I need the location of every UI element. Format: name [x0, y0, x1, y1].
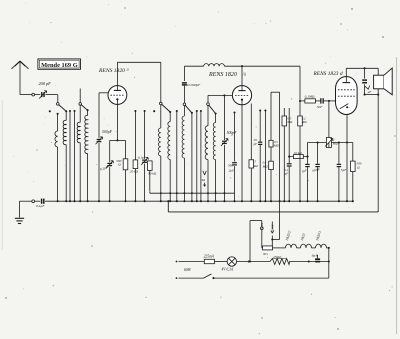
svg-text:Mende 169 G: Mende 169 G — [41, 62, 78, 69]
svg-text:500: 500 — [228, 164, 233, 168]
svg-text:500pF: 500pF — [227, 131, 238, 135]
svg-text:NG: NG — [262, 252, 268, 256]
svg-text:pF: pF — [253, 142, 258, 146]
svg-text:MΩ: MΩ — [286, 120, 293, 124]
svg-text:MΩ: MΩ — [301, 120, 308, 124]
svg-text:30 kΩ: 30 kΩ — [148, 171, 157, 175]
svg-text:MΩ: MΩ — [273, 144, 280, 148]
svg-text:250Ω: 250Ω — [273, 255, 281, 259]
svg-text:/i: /i — [126, 68, 129, 72]
svg-text:5µF: 5µF — [341, 168, 348, 172]
svg-text:µF: µF — [368, 90, 372, 94]
svg-text:500pF: 500pF — [102, 130, 113, 134]
svg-text:RENS 1820: RENS 1820 — [208, 72, 237, 78]
svg-text:MΩ: MΩ — [332, 142, 339, 146]
svg-text:10 kΩ: 10 kΩ — [294, 151, 303, 155]
svg-text:kΩ: kΩ — [254, 164, 259, 168]
svg-text:2µF: 2µF — [229, 168, 236, 172]
svg-text:RENS 1820: RENS 1820 — [98, 68, 125, 74]
svg-text:10.000pF: 10.000pF — [187, 83, 201, 87]
svg-text:MΩ: MΩ — [262, 164, 269, 168]
svg-text:200 pF: 200 pF — [39, 81, 52, 86]
svg-text:µF: µF — [285, 172, 289, 176]
svg-text:RENS 1823 d: RENS 1823 d — [313, 71, 343, 77]
svg-text:~110V: ~110V — [271, 223, 275, 233]
svg-text:225mA: 225mA — [204, 255, 215, 259]
svg-text:8µF: 8µF — [312, 253, 319, 257]
svg-text:60W: 60W — [184, 268, 192, 272]
svg-text:20 kΩ: 20 kΩ — [130, 170, 139, 174]
svg-text:5nF: 5nF — [317, 105, 324, 109]
